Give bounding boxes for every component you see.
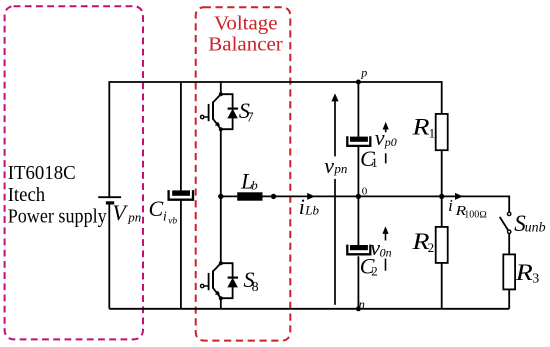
svg-text:i: i: [163, 209, 167, 224]
transistor S8 (IGBT with antiparallel diode): [201, 261, 239, 300]
capacitor C1: [347, 136, 370, 146]
svg-text:Voltage: Voltage: [214, 12, 278, 34]
svg-text:1: 1: [429, 125, 436, 140]
annotation arrow v_0n: [382, 226, 388, 271]
battery V_pn: [98, 197, 121, 203]
arrow i_R100: [455, 193, 463, 200]
resistor R1: [436, 114, 448, 150]
label i_R100ohm: [448, 196, 487, 220]
svg-text:IT6018C: IT6018C: [8, 162, 76, 184]
svg-text:v: v: [375, 125, 385, 150]
annotation arrow v_pn: [331, 93, 338, 304]
svg-text:0n: 0n: [380, 245, 392, 259]
wire: R3 to bottom bus: [508, 289, 510, 308]
svg-text:Balancer: Balancer: [208, 33, 283, 55]
svg-text:pn: pn: [333, 161, 347, 176]
capacitor C2: [347, 245, 370, 255]
svg-text:pn: pn: [127, 210, 141, 225]
node p: [356, 80, 361, 85]
inductor L_b: [237, 192, 262, 200]
wire: C_ivb branch upper: [180, 82, 182, 190]
svg-text:i: i: [299, 194, 305, 219]
wire: switch to R3: [508, 234, 510, 255]
label v_pn: [324, 153, 347, 178]
wire: left branch lower: [108, 203, 110, 309]
svg-text:2: 2: [428, 240, 435, 255]
wire: 0-wire right (node 0 to switch corner): [358, 195, 509, 197]
wire: bottom bus: [109, 308, 509, 310]
svg-text:2: 2: [371, 264, 378, 279]
svg-text:Lb: Lb: [304, 203, 319, 218]
wire: left branch upper: [108, 81, 110, 197]
wire: IGBT branch bottom: [220, 298, 222, 309]
node 0: [356, 194, 361, 199]
node: junction at IGBT leg midpoint: [218, 194, 223, 199]
label L_b: [240, 169, 258, 194]
wire: center bus p to C1: [357, 82, 359, 137]
label C_ivb: [149, 196, 178, 226]
wire: mid wire (inductor to node 0): [263, 195, 359, 197]
node: junction R1/R2 on 0-wire: [439, 194, 444, 199]
svg-text:C: C: [149, 196, 164, 221]
label S_unb: [514, 211, 545, 237]
wire: R branch top (from top bus corner): [441, 81, 443, 114]
svg-text:n: n: [359, 298, 365, 312]
wire: R1 to R2: [441, 150, 443, 227]
svg-text:b: b: [251, 178, 258, 193]
label R1: [411, 115, 435, 141]
wire: center bus C2 to n: [357, 256, 359, 309]
wire: C_ivb branch lower: [180, 201, 182, 309]
svg-text:8: 8: [252, 280, 259, 295]
svg-text:R: R: [515, 260, 533, 285]
label v_p0: [375, 125, 397, 150]
svg-text:1: 1: [371, 155, 378, 170]
label v_0n: [370, 235, 391, 260]
label S8: [244, 267, 259, 295]
wire: IGBT branch top: [220, 81, 222, 94]
svg-text:Power supply: Power supply: [8, 206, 107, 228]
label R2: [411, 229, 434, 255]
wire: R2 to bottom bus: [441, 263, 443, 309]
svg-text:unb: unb: [525, 220, 546, 235]
svg-text:p0: p0: [384, 135, 397, 149]
svg-text:0: 0: [362, 185, 368, 197]
wire: top bus: [109, 81, 441, 83]
label i_Lb: [299, 194, 320, 219]
annotation arrow v_p0: [383, 122, 389, 164]
svg-text:R: R: [411, 115, 429, 140]
node n: [356, 306, 361, 311]
resistor R2: [436, 227, 448, 263]
svg-text:3: 3: [532, 272, 539, 287]
svg-text:100Ω: 100Ω: [464, 209, 487, 220]
wire: center bus C1 to C2: [357, 147, 359, 245]
svg-text:Itech: Itech: [8, 184, 46, 206]
switch S_unb: [500, 212, 511, 233]
label V_pn: [112, 200, 141, 225]
svg-text:7: 7: [247, 111, 254, 126]
svg-text:v: v: [324, 153, 334, 178]
voltage balancer dashed box (red): [196, 7, 291, 340]
capacitor C_ivb: [169, 190, 193, 200]
label C1: [360, 146, 378, 171]
svg-text:p: p: [360, 65, 367, 79]
wire: IGBT branch middle (S7 to S8): [220, 129, 222, 263]
svg-text:i: i: [448, 196, 453, 215]
node: dot at inductor output: [271, 194, 276, 199]
label R3: [515, 260, 540, 287]
resistor R3: [503, 254, 515, 289]
wire: 0-wire corner down to switch: [508, 196, 510, 213]
wire: mid wire left (junction to inductor): [221, 195, 237, 197]
transistor S7 (IGBT with antiparallel diode): [201, 92, 239, 131]
label C2: [360, 254, 378, 279]
label S7: [239, 98, 254, 126]
svg-text:vb: vb: [168, 216, 177, 226]
power supply dashed box (magenta): [5, 6, 143, 339]
arrow i_Lb: [307, 193, 315, 200]
